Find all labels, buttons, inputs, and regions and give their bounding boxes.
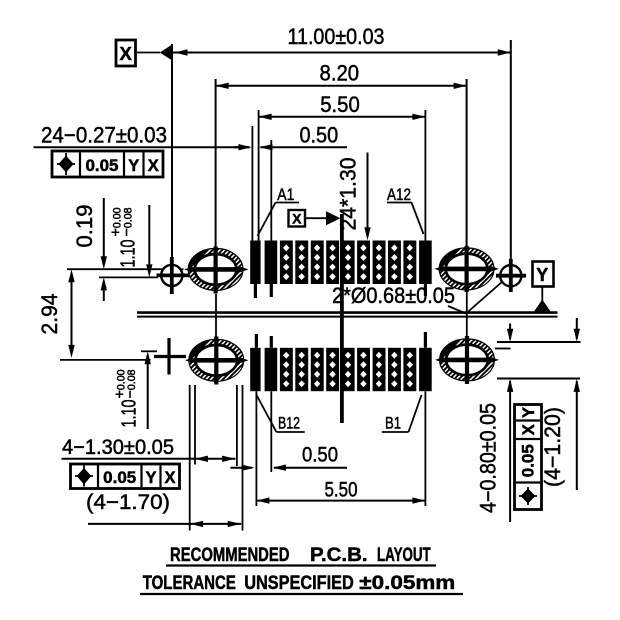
extension line pad A12 centerline	[424, 110, 426, 241]
centerline cross bottom-left	[154, 338, 186, 375]
svg-text:X: X	[164, 469, 175, 487]
svg-text:RECOMMENDED: RECOMMENDED	[170, 544, 290, 566]
label B1 with leader	[382, 395, 422, 433]
pad B7	[326, 348, 339, 391]
svg-text:Y: Y	[128, 157, 139, 175]
svg-text:24*1.30: 24*1.30	[336, 158, 361, 231]
extension line right hole	[510, 40, 512, 259]
oval mounting pad bottom-left	[169, 337, 305, 385]
svg-text:P.C.B.: P.C.B.	[310, 544, 368, 566]
board seam line 1	[137, 311, 558, 314]
label B12 with leader	[256, 394, 305, 433]
GD&T frame position 0.05 Y X (top left)	[52, 151, 163, 177]
svg-text:2.94: 2.94	[37, 294, 62, 335]
extension segment y=351	[141, 350, 157, 352]
svg-text:0.05: 0.05	[86, 157, 119, 175]
pad B11	[265, 348, 278, 391]
pad A4	[295, 241, 308, 285]
extension stubs above pads B12 B11 B1	[256, 332, 425, 348]
svg-text:X: X	[120, 43, 133, 64]
GD&T frame position 0.05 Y X (bottom left)	[71, 464, 180, 489]
svg-text:X: X	[292, 211, 302, 227]
svg-text:24−0.27±0.03: 24−0.27±0.03	[41, 123, 167, 148]
svg-text:0.05: 0.05	[520, 444, 538, 477]
dimension 2.94	[37, 269, 75, 358]
through hole right (Ø0.68)	[496, 259, 526, 292]
dimension 2-Ø0.68±0.05	[332, 282, 503, 314]
svg-text:TOLERANCE: TOLERANCE	[143, 572, 236, 594]
extension line pad A2 centerline	[270, 140, 272, 241]
dimension 4-1.30±0.05	[62, 436, 236, 462]
pad A1	[250, 241, 260, 285]
dimension 5.50 bottom	[256, 479, 425, 504]
vertical centerline (datum X axis)	[340, 214, 344, 423]
dimension 0.50 bottom	[231, 444, 348, 471]
extension line left oval centerline	[215, 79, 217, 248]
dimension 0.50 top	[233, 123, 347, 151]
svg-text:0.50: 0.50	[302, 444, 338, 467]
datum X symbol (top left)	[116, 40, 188, 66]
pad B8	[311, 348, 324, 391]
svg-text:X: X	[148, 157, 159, 175]
extension line bottom oval center (left)	[60, 359, 151, 361]
pad A11	[403, 241, 416, 285]
svg-text:4−1.30±0.05: 4−1.30±0.05	[62, 436, 174, 459]
oval mounting pad bottom-right	[420, 336, 556, 384]
dimension 1.10+0.00-0.08 (top)	[108, 205, 153, 277]
svg-text:Y: Y	[536, 265, 548, 285]
svg-text:0.19: 0.19	[72, 205, 97, 248]
extension lines below pads B12 B11 B1	[256, 391, 425, 506]
dimension (4-1.70)	[86, 491, 241, 527]
extension line left hole centerline (datum X)	[171, 44, 173, 257]
svg-text:B1: B1	[385, 414, 401, 433]
dimension 0.19	[72, 198, 107, 301]
extension lines bottom-left oval edges	[190, 385, 243, 531]
extension line pad A1	[252, 110, 258, 241]
pad A3	[280, 241, 293, 285]
svg-text:0.05: 0.05	[103, 469, 136, 487]
pad A2	[265, 241, 278, 285]
oval mounting pad top-left	[168, 247, 304, 294]
dimension 24-0.27±0.03	[34, 123, 250, 148]
svg-text:1.10: 1.10	[118, 240, 140, 268]
pad B6	[342, 348, 355, 391]
svg-text:Y: Y	[145, 469, 156, 487]
pad A6	[326, 241, 339, 285]
label A12 with leader	[387, 185, 424, 234]
pad A10	[388, 241, 401, 285]
svg-text:5.50: 5.50	[320, 92, 360, 117]
svg-text:LAYOUT: LAYOUT	[377, 544, 431, 566]
pad B4	[373, 348, 386, 391]
datum Y symbol (right)	[533, 262, 554, 313]
extension line right oval centerline	[466, 79, 468, 247]
pad B2	[403, 348, 416, 391]
dimension 11.00±0.03	[173, 24, 511, 56]
pad B5	[357, 348, 370, 391]
dimension 1.10+0.00-0.08 (bottom)	[112, 351, 151, 429]
svg-text:A1: A1	[277, 185, 294, 204]
svg-text:4−0.80±0.05: 4−0.80±0.05	[476, 403, 501, 513]
svg-text:11.00±0.03: 11.00±0.03	[288, 24, 385, 49]
pad A12	[419, 241, 432, 285]
extension line pad top edge (right)	[497, 341, 581, 343]
svg-text:X: X	[520, 424, 538, 435]
dimension (4-1.20) (right, rotated)	[540, 318, 580, 490]
extension line hole center (left)	[99, 276, 158, 278]
svg-text:5.50: 5.50	[325, 479, 358, 502]
extension stubs below pads A1 A2 A12	[255, 284, 425, 298]
pad B10	[280, 348, 293, 391]
title RECOMMENDED P.C.B. LAYOUT	[166, 544, 436, 566]
label A1 with leader	[258, 185, 300, 236]
extension line 1.20 below seam (right)	[497, 378, 580, 380]
dimension 5.50 top	[259, 92, 426, 120]
pad B1	[419, 348, 432, 391]
GD&T frame position 0.05 X Y (right, rotated)	[515, 405, 542, 510]
svg-text:8.20: 8.20	[320, 61, 360, 86]
svg-text:2*Ø0.68±0.05: 2*Ø0.68±0.05	[332, 283, 455, 308]
svg-text:B12: B12	[278, 414, 300, 433]
extension line oval center (left)	[67, 268, 184, 270]
pad A9	[373, 241, 386, 285]
dimension 4-0.80±0.05 (right, rotated)	[476, 324, 514, 523]
svg-text:1.10: 1.10	[119, 400, 141, 428]
svg-text:Y: Y	[520, 407, 538, 418]
pad A7	[342, 241, 355, 285]
dimension 24-1.30 pad length	[336, 153, 371, 241]
pad A8	[357, 241, 370, 285]
svg-text:(4−1.20): (4−1.20)	[540, 407, 565, 487]
board seam line 2	[137, 316, 558, 318]
dimension 8.20	[216, 61, 467, 90]
pad A5	[311, 241, 324, 285]
svg-text:A12: A12	[387, 185, 411, 204]
datum X symbol (center)	[289, 210, 341, 227]
svg-text:UNSPECIFIED: UNSPECIFIED	[244, 572, 354, 594]
oval mounting pad top-right	[419, 246, 555, 292]
pad B3	[388, 348, 401, 391]
svg-text:±0.05mm: ±0.05mm	[359, 572, 455, 594]
svg-text:(4−1.70): (4−1.70)	[86, 491, 170, 514]
pad B12	[250, 348, 260, 391]
through hole left (Ø0.68)	[157, 257, 190, 294]
pad B9	[295, 348, 308, 391]
svg-text:0.50: 0.50	[299, 123, 338, 148]
title TOLERANCE UNSPECIFIED ±0.05mm	[140, 572, 463, 594]
